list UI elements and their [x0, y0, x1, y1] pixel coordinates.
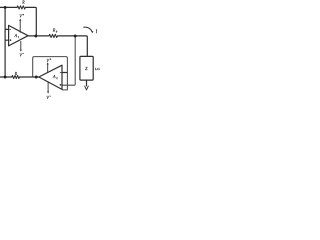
svg-text:V: V — [19, 53, 22, 58]
wire output to load corner — [58, 36, 87, 57]
supply V+ arrow A1 — [19, 21, 21, 33]
supply V- arrow A2 — [47, 82, 49, 92]
svg-text:R: R — [14, 72, 18, 76]
svg-text:V: V — [19, 13, 22, 18]
wire top rail left — [0, 6, 17, 8]
node dot A1 output — [34, 35, 37, 38]
wire A2 feedback loop — [33, 57, 68, 90]
svg-text:V: V — [46, 95, 49, 100]
supply V- arrow A1 — [20, 41, 22, 49]
ground — [85, 86, 89, 90]
svg-text:R: R — [21, 0, 25, 4]
wire top rail right to corner — [26, 7, 37, 35]
svg-text:LOAD: LOAD — [95, 67, 100, 71]
resistor R3 (bottom) — [12, 75, 20, 78]
resistor R1 (top feedback) — [17, 6, 25, 9]
resistor R2 (Rb series) — [49, 34, 58, 37]
op-amp A1 plus mark — [10, 39, 12, 41]
op-amp A2 minus mark — [60, 71, 62, 73]
svg-text:i: i — [96, 29, 98, 35]
wire A1 noninverting stub — [5, 39, 9, 41]
wire A1 output — [28, 35, 49, 37]
op-amp U2 A2 triangle — [39, 65, 62, 89]
node dot A2 output — [35, 76, 38, 79]
node dot load top — [74, 35, 77, 38]
wire left rail — [4, 7, 6, 77]
wire load to ground — [86, 80, 88, 86]
wire A1 inverting stub — [5, 28, 9, 30]
svg-text:A: A — [52, 74, 56, 79]
wire A2 inverting stub — [62, 72, 67, 74]
svg-text:b: b — [56, 30, 58, 33]
op-amp U1 A1 triangle — [9, 25, 28, 46]
op-amp A1 minus mark — [9, 28, 11, 30]
wire bottom rail left — [0, 76, 12, 78]
load box Z — [80, 56, 93, 80]
supply V+ arrow A2 — [47, 64, 49, 72]
wire bottom rail to A2 output — [20, 76, 39, 78]
svg-text:V: V — [46, 58, 49, 63]
node dot input top — [4, 6, 7, 9]
wire sense line down — [62, 36, 75, 85]
op-amp A2 plus mark — [60, 84, 62, 86]
svg-text:A: A — [13, 33, 17, 38]
node dot input bottom — [4, 76, 7, 79]
current arrow i curved — [84, 27, 92, 30]
